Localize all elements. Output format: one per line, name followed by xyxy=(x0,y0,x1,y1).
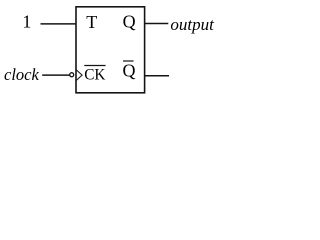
overline of CK xyxy=(84,65,105,67)
svg-text:Q: Q xyxy=(123,61,136,81)
svg-text:1: 1 xyxy=(22,12,31,32)
svg-text:clock: clock xyxy=(4,65,39,84)
svg-text:CK: CK xyxy=(84,67,105,84)
clock edge-trigger triangle xyxy=(76,70,82,81)
flip-flop U1 body xyxy=(76,7,145,93)
wire from Q to output xyxy=(144,23,168,25)
svg-text:Q: Q xyxy=(123,12,136,32)
wire from Qbar output xyxy=(144,75,169,77)
svg-text:T: T xyxy=(86,12,97,32)
wire from clock to bubble xyxy=(42,74,69,76)
overline of Qbar xyxy=(123,60,134,62)
inversion bubble on CK pin xyxy=(70,73,74,77)
svg-text:output: output xyxy=(170,15,215,34)
wire from 1 to T input xyxy=(41,23,77,25)
